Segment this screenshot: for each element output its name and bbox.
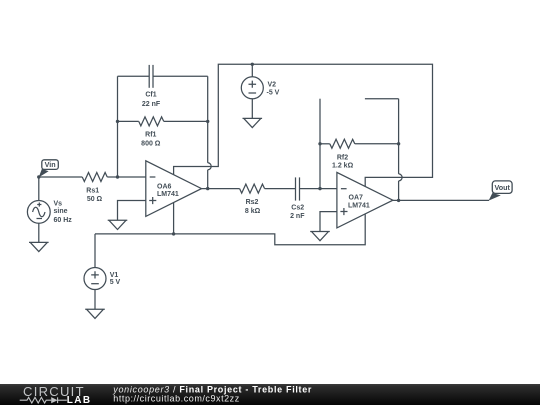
- node: OA6 inverting input: [116, 175, 119, 178]
- svg-text:800 Ω: 800 Ω: [141, 141, 161, 148]
- svg-text:5 V: 5 V: [110, 279, 121, 286]
- voltage source V1: [84, 268, 106, 290]
- wire: Rf2 left vertical with stub top: [319, 99, 321, 189]
- wire: OA7 output to Vout: [393, 199, 489, 201]
- svg-text:Vin: Vin: [45, 160, 56, 169]
- wire: stub above OA7: [365, 98, 399, 100]
- wire: OA7 non-inverting input to ground: [320, 212, 337, 232]
- svg-text:Vout: Vout: [494, 183, 510, 192]
- svg-text:sine: sine: [54, 208, 68, 215]
- wire: feedback loop right vertical upper: [207, 76, 209, 121]
- svg-text:1.2 kΩ: 1.2 kΩ: [332, 163, 354, 170]
- resistor Rs2: [240, 184, 296, 193]
- ground (Vs): [29, 242, 49, 251]
- resistor Rf2: [320, 139, 399, 148]
- voltage source Vs wire top: [38, 177, 40, 201]
- wire: V1 to ground: [94, 290, 96, 310]
- ground (OA6 +): [108, 220, 128, 229]
- node: Rf2 right: [397, 142, 400, 145]
- footer title text: [112, 384, 312, 403]
- wire: Cf1 top loop horizontal left: [118, 75, 150, 77]
- node: Rf1 left: [116, 120, 119, 123]
- wire: bottom rail with jog: [95, 214, 365, 244]
- svg-text:Rf2: Rf2: [337, 154, 348, 161]
- voltage source Vs (sine): [27, 201, 50, 224]
- wire: OA6 V+ pin up and over to supply rail: [174, 64, 433, 186]
- svg-text:2 nF: 2 nF: [290, 213, 305, 220]
- svg-text:Rs2: Rs2: [246, 199, 259, 206]
- svg-text:-5 V: -5 V: [267, 89, 280, 96]
- svg-text:Cs2: Cs2: [291, 205, 304, 212]
- svg-text:Vs: Vs: [54, 201, 63, 208]
- wire: Vin node to Rs1: [39, 176, 82, 178]
- wire: right vertical from Rf1 down to OA6 output with hop: [208, 121, 212, 188]
- node: V2 supply tap: [251, 63, 254, 66]
- node flag Vout: [489, 181, 512, 201]
- node: OA6 output: [206, 187, 209, 190]
- svg-text:8 kΩ: 8 kΩ: [245, 208, 261, 215]
- svg-text:http://circuitlab.com/c9xt2zz: http://circuitlab.com/c9xt2zz: [113, 393, 240, 403]
- svg-text:Cf1: Cf1: [145, 92, 156, 99]
- voltage source V2 wire top: [251, 64, 253, 77]
- wire: Vs to ground: [38, 223, 40, 242]
- ground (V1): [85, 309, 105, 318]
- wire: OA6 V- pin down to bottom rail: [173, 203, 175, 234]
- resistor Rf1: [118, 117, 208, 126]
- wire: V2 to ground: [251, 99, 253, 119]
- wire: OA6 non-inverting input to ground: [118, 201, 146, 221]
- voltage source V2: [241, 77, 263, 99]
- ground (V2): [243, 118, 263, 127]
- svg-text:22 nF: 22 nF: [142, 101, 161, 108]
- voltage source V1 wire top: [94, 234, 96, 268]
- node: OA7 inverting input: [318, 187, 321, 190]
- wire: OA6 output to Rs2: [202, 188, 240, 190]
- node: Rf1 right: [206, 120, 209, 123]
- op-amp OA6: [146, 161, 202, 217]
- capacitor Cs2: [296, 177, 300, 200]
- node: OA7 output: [397, 199, 400, 202]
- svg-text:OA7: OA7: [349, 195, 364, 202]
- wire: right vertical Rf2 to OA7 output with hop: [399, 99, 403, 201]
- svg-text:V2: V2: [268, 81, 277, 88]
- svg-text:V1: V1: [110, 272, 119, 279]
- wire: feedback loop left vertical: [117, 76, 119, 177]
- resistor Rs1: [82, 173, 117, 182]
- wire: Cs2 to OA7 inverting input: [300, 188, 337, 190]
- svg-text:LM741: LM741: [157, 191, 179, 198]
- svg-text:60 Hz: 60 Hz: [54, 217, 73, 224]
- node: OA6 V- rail tap: [172, 232, 175, 235]
- capacitor Cf1: [149, 65, 153, 88]
- ground (OA7 +): [310, 232, 330, 241]
- node flag Vin: [39, 160, 59, 178]
- CircuitLab logo: [20, 384, 92, 405]
- wire: Rs1 to OA6 inverting input: [118, 176, 146, 178]
- svg-text:50 Ω: 50 Ω: [87, 196, 103, 203]
- svg-text:LAB: LAB: [67, 395, 92, 405]
- svg-text:OA6: OA6: [157, 183, 172, 190]
- node: Rf2 left: [318, 142, 321, 145]
- op-amp OA7: [337, 172, 393, 228]
- node: Vin tap: [37, 175, 40, 178]
- wire: Cf1 top loop horizontal right: [153, 75, 208, 77]
- svg-text:Rs1: Rs1: [86, 188, 99, 195]
- svg-text:LM741: LM741: [348, 203, 370, 210]
- svg-text:Rf1: Rf1: [145, 131, 156, 138]
